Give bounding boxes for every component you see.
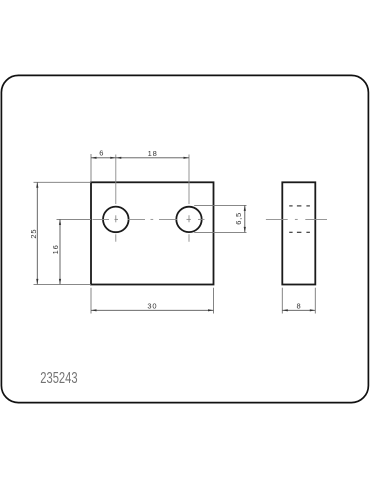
- front view plate outline: [91, 182, 214, 284]
- svg-text:235243: 235243: [40, 369, 78, 386]
- centerline horizontal (side view): [266, 218, 327, 220]
- dimension 25 (left side): [29, 182, 91, 284]
- hidden line, hole top edge (side view): [289, 205, 310, 207]
- svg-text:6,5: 6,5: [234, 212, 243, 225]
- svg-text:6: 6: [99, 149, 103, 158]
- side view plate outline: [282, 182, 315, 284]
- dimension 6,5 (hole diameter, right of front view): [194, 205, 246, 232]
- svg-text:16: 16: [51, 244, 60, 254]
- hole H2 (right, front view): [176, 207, 201, 232]
- hole H1 (left, front view): [103, 207, 129, 233]
- dimension 16 (left side): [51, 219, 91, 284]
- dimension 6 (top, extension + line + arrows): [91, 149, 116, 183]
- svg-text:18: 18: [148, 149, 158, 158]
- svg-text:8: 8: [297, 301, 301, 310]
- centerline vertical hole H2: [188, 160, 190, 242]
- svg-text:30: 30: [147, 301, 157, 310]
- hidden line, hole bottom edge (side view): [289, 231, 310, 233]
- centerline horizontal through holes (front view): [93, 218, 205, 220]
- dimension 30 (bottom of front view): [91, 288, 214, 314]
- drawing frame (rounded border): [1, 75, 368, 402]
- dimension 18 (top, line + arrows + text): [116, 149, 189, 160]
- centerline vertical hole H1: [115, 160, 117, 242]
- svg-text:25: 25: [29, 229, 38, 239]
- dimension 8 (bottom of side view): [282, 288, 315, 314]
